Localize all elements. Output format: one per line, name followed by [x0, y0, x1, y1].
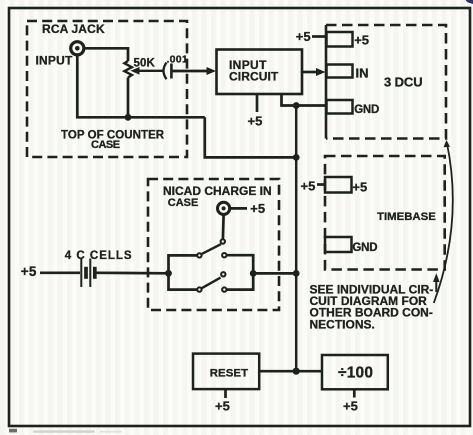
- wire counter-case ground to main bus: [205, 117, 296, 157]
- capacitor C1 curved plate: [164, 63, 167, 80]
- svg-text:IN: IN: [356, 65, 369, 80]
- svg-text:NECTIONS.: NECTIONS.: [310, 317, 375, 331]
- dashed enclosure: TOP OF COUNTER CASE: [27, 21, 187, 157]
- node switch output junction: [250, 270, 257, 277]
- wire jack to pot top: [85, 48, 128, 61]
- svg-text:+5: +5: [352, 180, 367, 195]
- wire jack ground drop: [77, 55, 205, 117]
- node junction gnd bus top: [293, 102, 300, 109]
- wire C1 to input circuit with arrowhead: [173, 70, 209, 73]
- svg-text:+5: +5: [215, 398, 230, 413]
- svg-text:3 DCU: 3 DCU: [384, 75, 423, 90]
- svg-text:+5: +5: [21, 264, 37, 279]
- node bus bottom junction: [293, 368, 300, 375]
- node junction bus / case ground: [293, 154, 300, 161]
- connector J2 charge jack: [218, 202, 230, 214]
- block divide-by-100: [322, 355, 388, 389]
- svg-text:GND: GND: [354, 104, 379, 116]
- svg-text:CIRCUIT: CIRCUIT: [229, 69, 279, 83]
- wire charge jack to +5: [230, 207, 247, 210]
- pin box +5 of timebase: [325, 177, 352, 193]
- wire +5 to timebase pin: [317, 183, 325, 186]
- svg-text:+5: +5: [354, 33, 369, 48]
- pointer arc from note to boards: [434, 143, 453, 304]
- svg-text:4 C CELLS: 4 C CELLS: [65, 250, 133, 262]
- wire +5 stub of input circuit: [256, 94, 259, 112]
- switch S1 blade 2: [201, 278, 220, 289]
- svg-text:TIMEBASE: TIMEBASE: [377, 211, 436, 223]
- svg-text:INPUT: INPUT: [36, 53, 73, 67]
- wire bus to 3DCU GND: [296, 104, 326, 107]
- block RESET: [193, 354, 259, 390]
- capacitor C1 straight plate: [170, 64, 173, 79]
- svg-text:CASE: CASE: [168, 197, 199, 209]
- pin box +5 of 3DCU: [327, 32, 353, 47]
- wire +5 to pin: [312, 35, 327, 38]
- node battery junction: [165, 270, 172, 277]
- svg-text:+5: +5: [248, 113, 263, 128]
- wire right bracket of switch: [227, 255, 253, 289]
- wire +5 to battery: [40, 271, 80, 274]
- switch S1 pole1 right contact: [222, 253, 226, 257]
- potentiometer R1 50K: [124, 61, 131, 78]
- dashed enclosure NICAD CHARGE IN CASE: [148, 179, 279, 310]
- wire reset to bus: [259, 370, 296, 373]
- wire input circuit gnd to bus: [282, 94, 297, 106]
- connector J1 RCA jack: [71, 42, 84, 55]
- switch S1 pole1 left contact: [197, 253, 201, 257]
- wire bus to divider: [296, 370, 322, 373]
- svg-text:+5: +5: [250, 201, 265, 216]
- svg-text:50K: 50K: [134, 58, 156, 70]
- svg-text:+5: +5: [343, 398, 358, 413]
- wire battery to switch: [97, 271, 169, 274]
- wire pot bottom: [127, 78, 130, 118]
- svg-text:CASE: CASE: [91, 139, 120, 151]
- battery BT1 4 C CELLS: [80, 259, 82, 288]
- svg-text:RESET: RESET: [210, 367, 248, 379]
- switch S1 contact top: [221, 239, 225, 243]
- svg-text:.001: .001: [167, 53, 188, 65]
- arrow to timebase: [435, 279, 437, 292]
- switch S1 blade 1: [201, 244, 221, 254]
- node junction pot/ground: [125, 114, 132, 121]
- main +5 bus vertical wire: [295, 106, 298, 372]
- pin box GND of 3DCU: [327, 100, 353, 114]
- svg-text:÷100: ÷100: [338, 365, 373, 382]
- block TIMEBASE dashed board: [325, 156, 445, 270]
- wire input circuit to 3DCU IN with arrowhead: [302, 71, 317, 74]
- svg-text:RCA JACK: RCA JACK: [42, 22, 105, 36]
- wire +5 stub reset: [224, 389, 227, 398]
- svg-text:GND: GND: [352, 242, 377, 254]
- block U1 INPUT CIRCUIT: [217, 50, 303, 95]
- block 3 DCU dashed board: [325, 25, 328, 139]
- pin box IN of 3DCU: [327, 65, 353, 78]
- switch S1 middle right contact: [221, 272, 225, 276]
- node bus/battery junction: [293, 270, 300, 277]
- wire jack to switch common: [222, 215, 225, 239]
- svg-text:+5: +5: [296, 29, 311, 44]
- wire left bracket of switch: [169, 255, 197, 289]
- switch S1 pole2 right contact: [222, 287, 226, 291]
- pin box GND of timebase: [325, 237, 352, 252]
- switch S1 pole2 left contact: [197, 287, 201, 291]
- wiper arrow of R1: [137, 70, 163, 72]
- svg-text:+5: +5: [301, 179, 316, 194]
- wire +5 stub divider: [353, 389, 356, 397]
- arrowhead top of arc: [444, 140, 450, 147]
- wire switch output to bus: [253, 272, 296, 275]
